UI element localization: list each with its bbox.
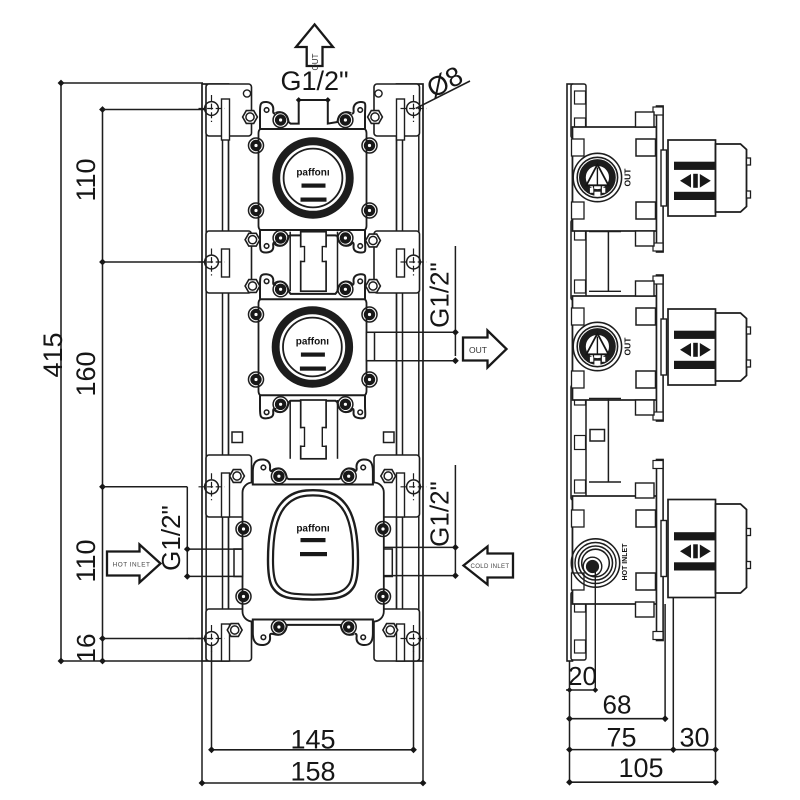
dimension 105 xyxy=(715,598,717,782)
module 3 cold inlet port stub xyxy=(384,549,393,577)
svg-text:68: 68 xyxy=(603,690,632,720)
side view module 2 flange xyxy=(657,275,664,421)
svg-text:158: 158 xyxy=(290,757,335,787)
module 2 top mounting bracket xyxy=(260,274,365,299)
left rail hinge tab xyxy=(222,249,230,277)
svg-text:160: 160 xyxy=(71,351,101,396)
extension lines left xyxy=(61,82,203,84)
rail hex nuts top xyxy=(243,111,258,124)
left rail hinge tab xyxy=(222,99,230,140)
svg-text:HOT INLET: HOT INLET xyxy=(622,543,629,581)
out port dimension right xyxy=(454,246,456,356)
screw hole crosshair xyxy=(205,480,219,494)
module 3 thermostat dome outline xyxy=(268,490,358,599)
side view module 1 flange end tabs xyxy=(653,107,663,115)
screw hole crosshair xyxy=(205,102,219,116)
side view module 2 flange end tabs xyxy=(653,276,663,284)
side view module 1 neck xyxy=(661,150,667,206)
svg-text:COLD INLET: COLD INLET xyxy=(471,563,510,570)
side view module 1 lugs xyxy=(636,112,655,127)
rail hex nuts bottom xyxy=(227,624,242,637)
module 1 top mounting bracket xyxy=(260,100,365,129)
dimension 68 xyxy=(664,604,666,719)
svg-text:G1/2": G1/2" xyxy=(425,481,455,547)
out arrow right xyxy=(463,331,507,368)
left rail hinge tab xyxy=(222,624,230,661)
left rail bracket plate xyxy=(206,455,252,517)
svg-text:16: 16 xyxy=(71,634,101,663)
svg-text:110: 110 xyxy=(71,158,101,201)
side view plate bracket block xyxy=(571,592,586,660)
left rail bracket plate xyxy=(206,231,252,293)
rail fasteners gap 2 xyxy=(230,470,245,483)
svg-text:paffonı: paffonı xyxy=(296,168,330,179)
svg-text:30: 30 xyxy=(679,723,709,753)
module 3 hot inlet port stub xyxy=(234,549,243,577)
side view module 2 lugs xyxy=(636,281,655,296)
side view module 3 indicator label xyxy=(674,532,715,540)
right rail bracket plate xyxy=(374,231,420,293)
valve module 3 thermostatic plate xyxy=(243,483,384,622)
side view module 3 neck xyxy=(661,521,667,577)
top bracket holes xyxy=(243,90,250,97)
side view module 2 neck xyxy=(661,319,667,375)
svg-text:OUT: OUT xyxy=(623,168,633,187)
screw hole crosshair xyxy=(407,632,421,646)
svg-text:paffonı: paffonı xyxy=(296,524,330,535)
module 3 bottom mounting bracket xyxy=(253,620,373,646)
left rail bracket plate xyxy=(206,84,252,136)
dimension column 110/160/110/16 xyxy=(102,110,104,662)
module 2 valve cap circle xyxy=(272,307,352,387)
module 2-3 connecting link xyxy=(289,400,291,459)
svg-text:paffonı: paffonı xyxy=(296,337,330,348)
side view module 2 outlet icon xyxy=(573,322,621,370)
side view module 1 cap xyxy=(716,144,747,212)
dimension 158 xyxy=(201,661,203,783)
side view plate bracket block xyxy=(571,385,586,500)
side view module 3 plate corner steps xyxy=(572,510,585,527)
side view module 2 cartridge housing xyxy=(668,309,716,385)
side view module 1 plate corner steps xyxy=(572,139,585,156)
cold inlet arrow xyxy=(464,547,514,585)
module 2 outlet port stub xyxy=(367,332,375,360)
front view: left mounting rail xyxy=(202,84,229,661)
left rail hinge tab xyxy=(222,473,230,517)
rail fasteners gap 1 xyxy=(245,233,260,246)
side view module 2 cap xyxy=(716,313,747,381)
svg-text:G1/2": G1/2" xyxy=(280,66,348,96)
right rail bracket plate xyxy=(374,84,420,136)
right rail bracket plate xyxy=(374,455,420,517)
screw hole crosshair xyxy=(407,102,421,116)
svg-text:G1/2": G1/2" xyxy=(425,262,455,328)
module 2 side port screws xyxy=(249,307,264,322)
dimension 145 xyxy=(211,645,213,750)
side view plate bracket block xyxy=(571,84,586,138)
screw hole crosshair xyxy=(205,632,219,646)
dimension 20 xyxy=(594,571,596,690)
module 2 bottom mounting bracket xyxy=(260,395,365,418)
svg-text:G1/2": G1/2" xyxy=(156,505,186,571)
right rail hinge tab xyxy=(397,624,405,661)
svg-text:75: 75 xyxy=(606,723,636,753)
right rail hinge tab xyxy=(397,249,405,277)
side view square mark xyxy=(590,430,605,442)
module 1-2 connecting link xyxy=(289,232,291,292)
module 1 side port screws xyxy=(249,138,264,153)
cold inlet port dimension xyxy=(454,465,456,577)
valve module 1 plate xyxy=(259,127,367,232)
side view module 2 plate corner steps xyxy=(572,308,585,325)
module 3 corner screws xyxy=(236,522,251,537)
top out arrow xyxy=(296,24,333,66)
module 1 bottom mounting bracket xyxy=(260,230,365,253)
left rail bracket plate xyxy=(206,609,252,661)
hot inlet port dimension xyxy=(186,487,188,577)
module 1 valve cap circle xyxy=(273,138,353,218)
module 3 top mounting bracket xyxy=(253,459,373,484)
side view module 3 cap xyxy=(716,504,747,593)
right rail bracket plate xyxy=(374,609,420,661)
side view module 1 cartridge housing xyxy=(668,140,716,216)
svg-text:20: 20 xyxy=(568,661,597,691)
side view module 2 body xyxy=(573,296,657,400)
svg-text:OUT: OUT xyxy=(469,345,487,355)
side view module 3 thermostat inlet icon xyxy=(571,539,619,587)
front view: right mounting rail xyxy=(397,84,424,661)
side view gap connectors xyxy=(589,231,621,233)
side view module 2 indicator label xyxy=(674,331,715,339)
right rail hinge tab xyxy=(397,473,405,517)
svg-text:HOT INLET: HOT INLET xyxy=(113,561,151,568)
side view module 3 lugs xyxy=(636,483,655,498)
svg-text:OUT: OUT xyxy=(623,337,633,356)
valve module 2 plate xyxy=(259,297,367,397)
screw hole crosshair xyxy=(407,255,421,269)
side view module 3 cartridge housing xyxy=(668,500,716,598)
dimension 415 vertical line xyxy=(60,83,62,661)
svg-text:110: 110 xyxy=(71,539,101,582)
side view plate bracket block xyxy=(571,220,586,300)
svg-text:145: 145 xyxy=(290,725,335,755)
hot inlet arrow xyxy=(107,545,161,583)
screw hole crosshair xyxy=(407,480,421,494)
side view module 3 flange end tabs xyxy=(653,461,663,469)
side view: wall plate xyxy=(567,84,573,661)
side view module 3 body xyxy=(573,496,657,604)
svg-text:415: 415 xyxy=(38,332,68,377)
side view module 1 indicator label xyxy=(674,162,715,170)
side view module 1 body xyxy=(573,127,657,231)
right rail hinge tab xyxy=(397,99,405,140)
side view module 1 flange xyxy=(657,106,664,252)
dimension 75 / 30 xyxy=(569,661,571,783)
side view module 1 outlet icon xyxy=(573,153,621,201)
screw hole crosshair xyxy=(205,255,219,269)
diameter 8 callout xyxy=(416,81,470,108)
side view module 3 flange xyxy=(657,460,664,641)
rail square marks gap 2 xyxy=(232,432,243,443)
row4 centreline extension xyxy=(188,638,200,640)
svg-text:105: 105 xyxy=(618,753,663,783)
